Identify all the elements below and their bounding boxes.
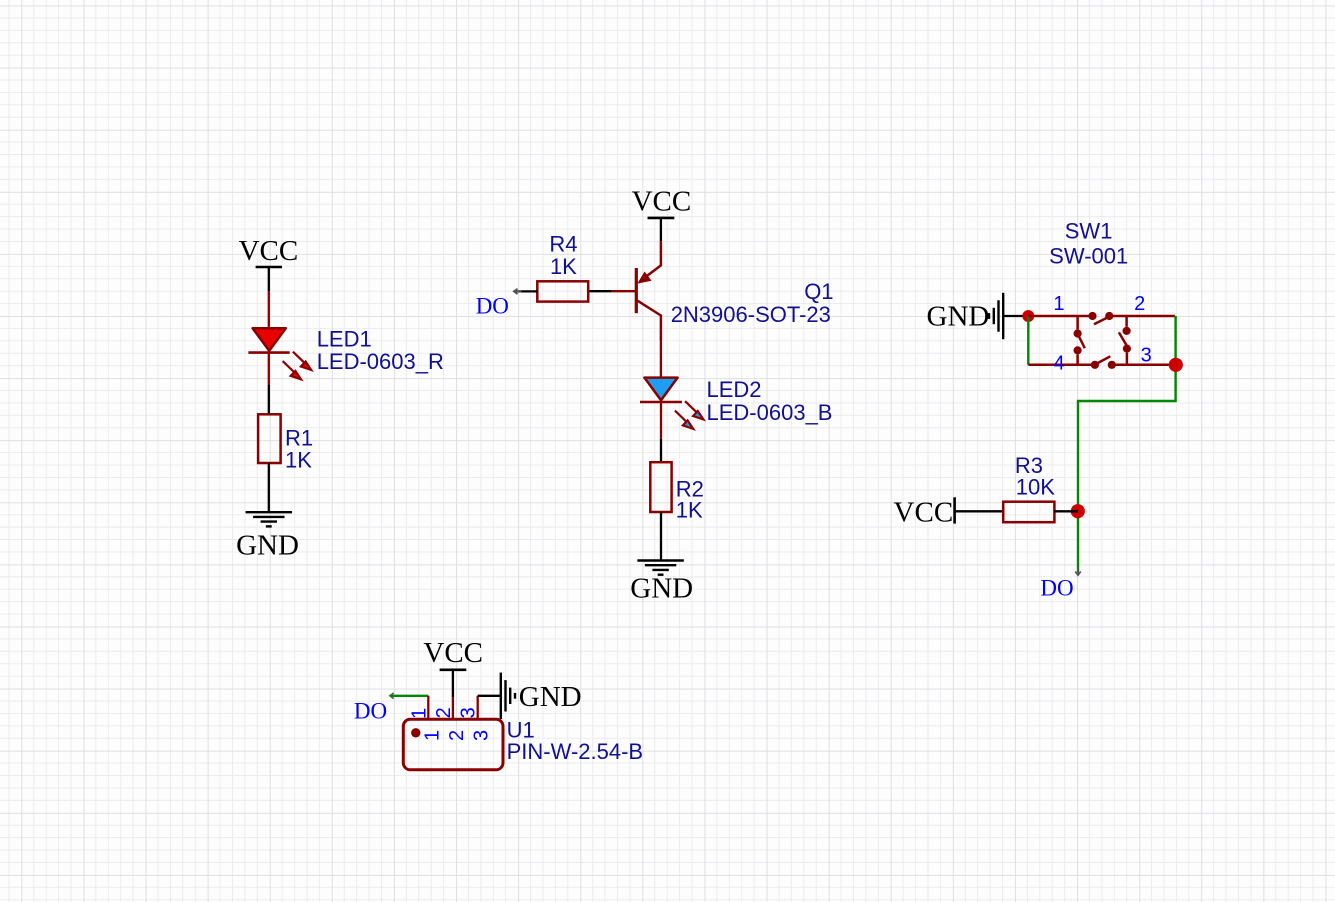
wire VCC to pin 2 — [452, 670, 454, 697]
svg-text:SW-001: SW-001 — [1049, 243, 1128, 268]
svg-text:LED-0603_B: LED-0603_B — [707, 400, 833, 425]
wire VCC to Q1 emitter — [660, 218, 662, 241]
transistor Q1 emitter pin with arrow — [637, 241, 661, 283]
svg-text:Q1: Q1 — [804, 279, 833, 304]
wire Q1 collector to LED2 — [660, 338, 662, 378]
LED2 cathode pin — [660, 402, 662, 439]
svg-text:LED-0603_R: LED-0603_R — [317, 349, 444, 374]
svg-text:DO: DO — [354, 698, 387, 723]
resistor R4 — [537, 281, 588, 301]
resistor R3 — [1003, 502, 1054, 523]
wire VCC to R3 — [955, 510, 1004, 512]
ground symbol (LED1 branch) — [246, 512, 292, 526]
LED1 light arrow b — [283, 361, 301, 379]
svg-text:DO: DO — [476, 293, 509, 318]
svg-text:GND: GND — [630, 573, 693, 605]
svg-text:1: 1 — [421, 730, 443, 741]
U1 pin 1 marker dot — [411, 728, 420, 737]
junction dot (GND node) — [1022, 310, 1034, 322]
svg-text:2: 2 — [433, 707, 455, 718]
power flag VCC bar (U1) — [440, 668, 467, 671]
power flag VCC bar — [648, 217, 675, 220]
switch SW1 top rail pin 2 — [1109, 315, 1175, 318]
transistor Q1 base pin — [612, 290, 637, 292]
svg-text:10K: 10K — [1016, 475, 1055, 500]
switch SW1 bottom rail pin 3 — [1112, 364, 1176, 367]
power flag VCC bar — [256, 266, 282, 269]
LED1 anode pin — [268, 291, 270, 329]
svg-text:1K: 1K — [550, 254, 577, 279]
svg-text:DO: DO — [1040, 575, 1073, 600]
svg-text:PIN-W-2.54-B: PIN-W-2.54-B — [507, 739, 644, 764]
transistor Q1 collector pin — [636, 300, 661, 340]
ground symbol (U1, pointing right) — [501, 673, 515, 719]
net flag arrow DO (base) — [514, 289, 522, 295]
wire R4 to Q1 base — [588, 290, 611, 292]
svg-text:GND: GND — [519, 681, 582, 713]
svg-text:GND: GND — [236, 530, 299, 562]
switch contact left: stub dots lever — [1074, 316, 1085, 365]
svg-text:1: 1 — [1053, 293, 1064, 315]
wire VCC to LED1 anode — [268, 267, 270, 291]
svg-text:4: 4 — [1053, 353, 1064, 375]
connector U1 body — [403, 719, 503, 770]
ground symbol (Q1 branch) — [637, 561, 683, 575]
wire R1 to GND — [268, 463, 270, 512]
svg-text:2N3906-SOT-23: 2N3906-SOT-23 — [671, 302, 831, 327]
ground symbol (switch, pointing left) — [989, 293, 1003, 339]
switch contact bottom: dots and lever — [1091, 361, 1116, 369]
svg-text:3: 3 — [471, 730, 493, 741]
svg-text:VCC: VCC — [239, 235, 299, 267]
U1 pin 2 — [452, 697, 454, 719]
LED1 triangle — [253, 328, 286, 351]
power flag VCC bar (R3, vertical) — [953, 497, 956, 523]
LED2 light arrow b — [675, 411, 693, 429]
svg-text:R4: R4 — [549, 232, 577, 257]
LED1 light arrow a — [293, 352, 311, 370]
svg-text:VCC: VCC — [894, 497, 954, 529]
svg-text:LED1: LED1 — [317, 327, 372, 352]
svg-text:VCC: VCC — [423, 637, 483, 669]
svg-text:GND: GND — [927, 301, 990, 333]
LED2 light arrow a — [685, 401, 703, 419]
wire (green) right side down — [1078, 316, 1176, 573]
wire (green) DO to pin 1 — [390, 695, 428, 697]
net flag arrow DO (header) — [390, 693, 398, 699]
LED1 cathode bar — [248, 351, 289, 354]
switch SW1 bottom rail pin 4 — [1028, 364, 1095, 367]
net flag arrow DO (switch) — [1075, 568, 1081, 576]
U1 pin 3 — [477, 696, 479, 720]
svg-text:2: 2 — [1134, 293, 1145, 315]
svg-text:3: 3 — [458, 707, 480, 718]
wire LED1 to R1 — [268, 385, 270, 414]
LED1 cathode pin — [268, 353, 270, 385]
svg-text:LED2: LED2 — [707, 377, 762, 402]
wire DO flag to R4 — [514, 290, 538, 292]
transistor Q1 base bar — [635, 268, 638, 313]
U1 pin 1 — [427, 696, 429, 720]
junction dot (R3 node) — [1071, 504, 1085, 518]
resistor R2 — [650, 462, 671, 512]
junction dot (pin 3 node) — [1169, 358, 1183, 372]
wire (green) GND node down — [1027, 316, 1029, 365]
LED2 cathode bar — [640, 401, 682, 404]
wire R2 to GND — [660, 512, 662, 561]
wire pin 3 to GND — [478, 695, 501, 697]
svg-text:1K: 1K — [676, 497, 703, 522]
svg-text:1K: 1K — [285, 448, 312, 473]
svg-text:VCC: VCC — [632, 185, 692, 217]
LED2 triangle — [644, 378, 677, 401]
svg-text:1: 1 — [408, 708, 430, 719]
svg-text:3: 3 — [1141, 344, 1152, 366]
wire LED2 to R2 — [660, 439, 662, 463]
svg-text:SW1: SW1 — [1065, 218, 1113, 243]
wire GND to node — [1003, 315, 1028, 317]
switch contact top: dots and lever — [1088, 312, 1113, 320]
wire R3 to node — [1054, 510, 1078, 512]
switch contact right: stub dots lever — [1119, 316, 1131, 365]
switch SW1 top rail pin 1 — [1028, 315, 1092, 318]
resistor R1 — [258, 414, 281, 463]
svg-text:2: 2 — [446, 730, 468, 741]
